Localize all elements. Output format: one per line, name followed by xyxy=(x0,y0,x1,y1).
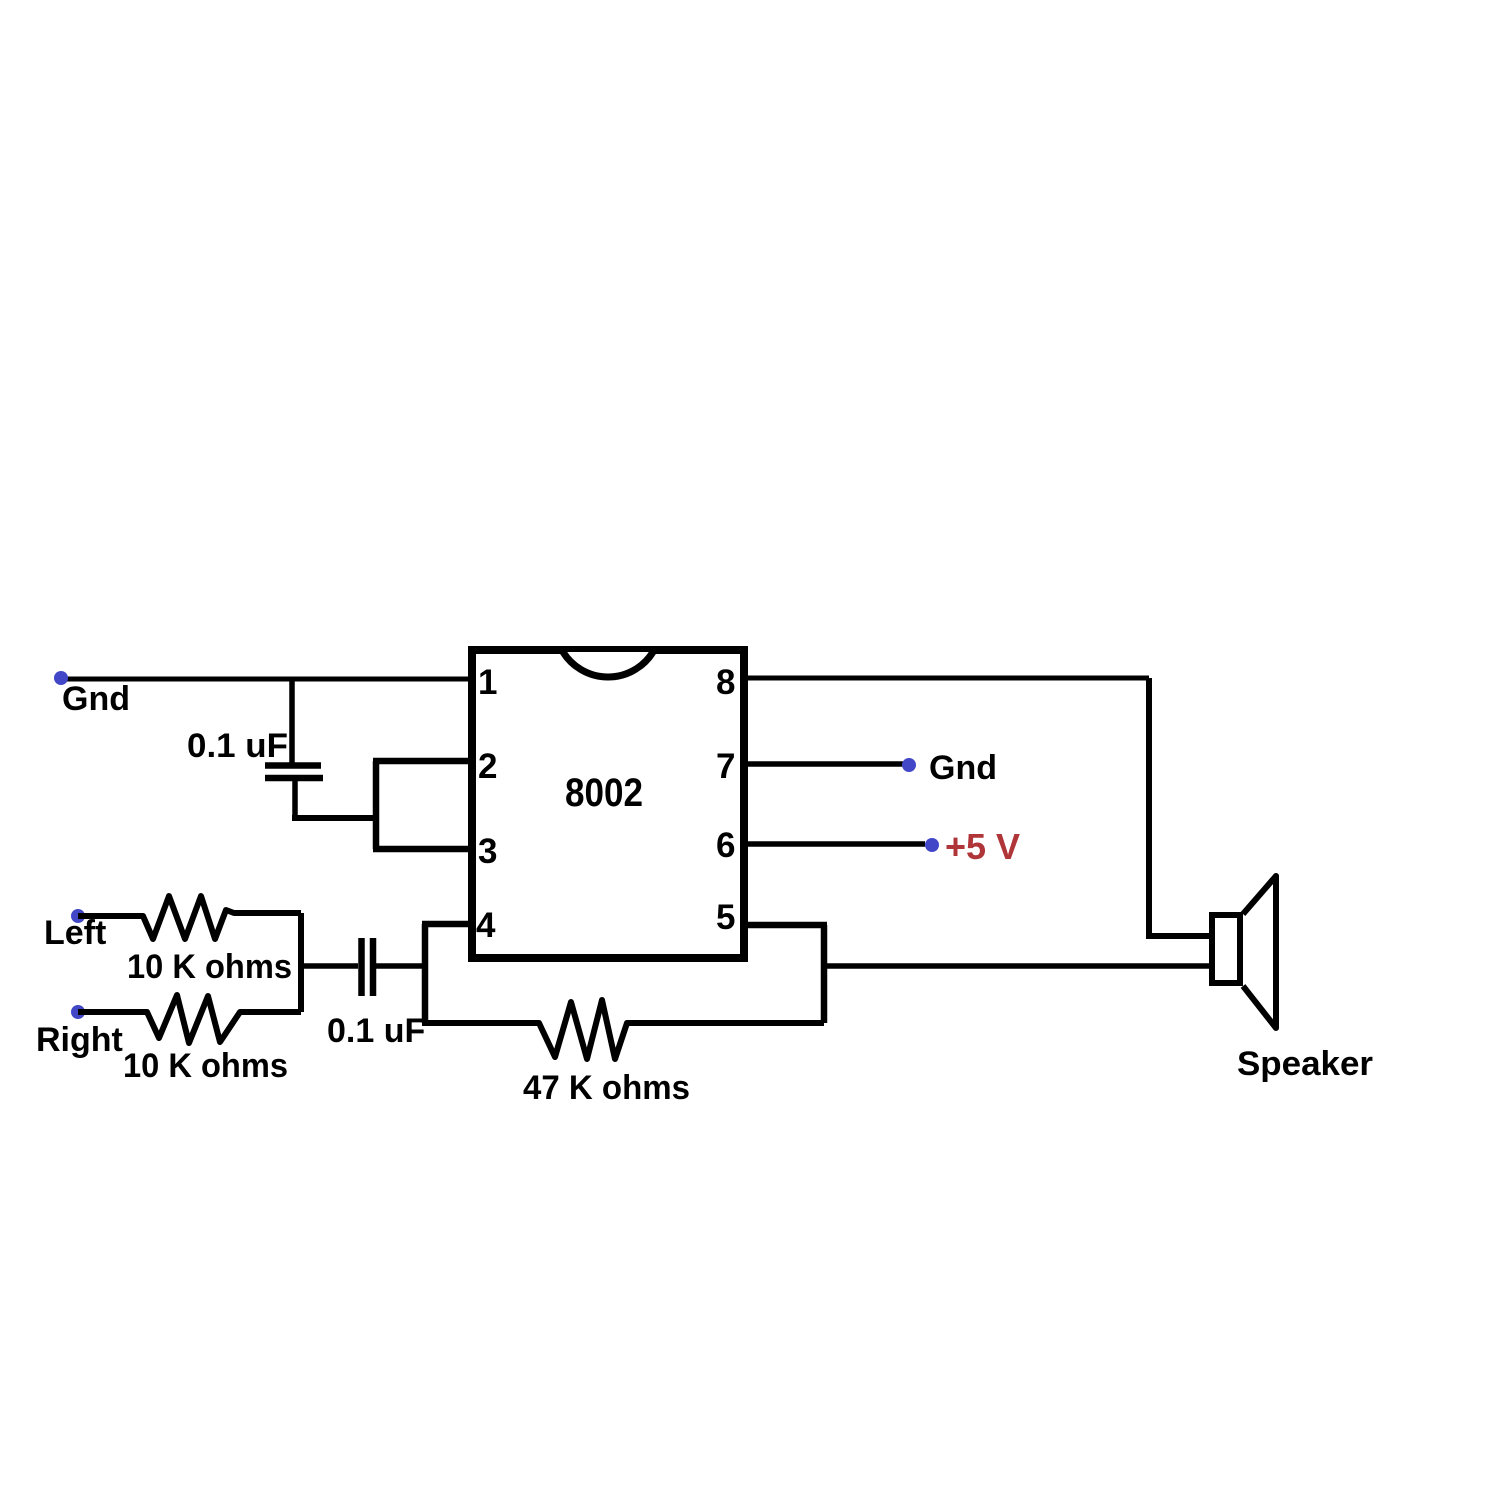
wire: pin 4 lead xyxy=(422,921,472,928)
svg-text:Left: Left xyxy=(44,914,106,952)
svg-text:Speaker: Speaker xyxy=(1237,1045,1373,1083)
svg-text:Right: Right xyxy=(36,1021,123,1059)
svg-text:7: 7 xyxy=(716,747,735,786)
wire: into speaker top xyxy=(1146,933,1212,939)
wire: pin 8 top rail xyxy=(746,676,1149,681)
svg-text:10 K ohms: 10 K ohms xyxy=(123,1047,288,1085)
svg-text:1: 1 xyxy=(478,663,497,702)
wire: C1 to pins 2-3 bracket xyxy=(292,815,376,821)
IC U1 8002 body xyxy=(472,650,744,958)
svg-text:4: 4 xyxy=(476,906,496,945)
node Right input (blue dot) xyxy=(71,1005,85,1019)
svg-text:6: 6 xyxy=(716,826,735,865)
svg-text:10 K ohms: 10 K ohms xyxy=(127,948,292,986)
speaker body xyxy=(1212,915,1240,983)
wire: right rail down xyxy=(1146,678,1152,936)
svg-text:47 K ohms: 47 K ohms xyxy=(523,1069,690,1107)
speaker horn xyxy=(1243,876,1276,1028)
resistor R2 10 K ohms (right input) xyxy=(78,995,301,1043)
svg-text:8002: 8002 xyxy=(565,771,643,815)
capacitor C2 0.1 uF right plate xyxy=(370,938,377,996)
wire: pin 5 lead xyxy=(746,922,827,929)
svg-text:+5 V: +5 V xyxy=(945,826,1020,867)
IC notch xyxy=(563,652,653,677)
wire: C2 to pin-4 junction xyxy=(376,963,425,969)
resistor R3 47 K ohms (feedback) xyxy=(422,1000,824,1059)
wire: pin 2 lead xyxy=(373,758,472,765)
svg-text:Gnd: Gnd xyxy=(929,749,997,787)
svg-text:0.1 uF: 0.1 uF xyxy=(187,727,288,765)
svg-text:0.1 uF: 0.1 uF xyxy=(327,1012,425,1050)
node +5V (pin 6 blue dot) xyxy=(925,838,939,852)
svg-text:2: 2 xyxy=(478,747,497,786)
wire: pin 3 lead xyxy=(373,846,472,853)
svg-text:3: 3 xyxy=(478,832,497,871)
svg-text:5: 5 xyxy=(716,898,735,937)
wire: junction to C2 xyxy=(301,963,358,969)
wire: pin 6 lead xyxy=(746,841,925,847)
node Gnd (pin 7 blue dot) xyxy=(902,758,916,772)
wire: input junction vertical xyxy=(298,913,304,1012)
node Left input (blue dot) xyxy=(71,909,85,923)
wire: pin 7 lead xyxy=(746,761,903,767)
wire: output to speaker xyxy=(824,963,1212,969)
wire: Gnd top rail to pin 1 xyxy=(61,677,472,682)
svg-text:8: 8 xyxy=(716,663,735,702)
capacitor C1 0.1 uF bottom plate xyxy=(265,775,323,782)
wire: pin-4 junction vertical xyxy=(422,924,429,1023)
wire: C1 bottom lead xyxy=(292,779,298,818)
svg-text:Gnd: Gnd xyxy=(62,680,130,718)
resistor R1 10 K ohms (left input) xyxy=(78,896,301,939)
capacitor C1 0.1 uF top plate xyxy=(265,762,321,769)
capacitor C2 0.1 uF left plate xyxy=(358,938,365,996)
wire: feedback right vertical xyxy=(821,925,828,1023)
node Gnd (top-left blue dot) xyxy=(54,671,68,685)
wire: drop from Gnd rail to C1 xyxy=(289,679,295,763)
wire: bracket vertical joining pin2 and pin3 xyxy=(373,761,380,849)
